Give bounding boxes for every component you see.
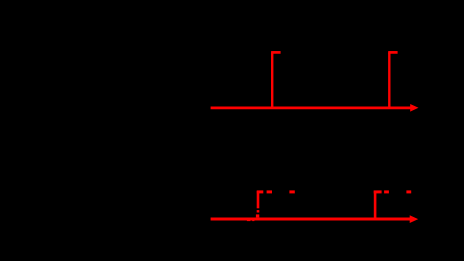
wire: pulse 2 top corner segment: [374, 190, 382, 193]
wire: pulse 1 top dash b: [289, 190, 294, 193]
node arrowhead of bottom axis: [410, 215, 419, 223]
wire: pulse 2 top dash a: [384, 190, 389, 193]
wire: impulse 2 vertical (top plot): [388, 52, 390, 107]
node t-axis (top impulse-train plot): [211, 52, 419, 111]
wire: bottom time axis: [211, 217, 411, 220]
wire: pulse 2 top dash b: [406, 190, 411, 193]
wire: pulse 1 rising edge (bottom plot): [257, 191, 260, 209]
wire: pulse 1 top corner segment: [257, 190, 264, 193]
wire: pulse 1 rising edge lower dash a: [257, 210, 260, 212]
wire: impulse 1 top tick: [271, 51, 281, 54]
wire: pulse 1 rising edge lower dash b: [256, 214, 259, 217]
node t-axis (bottom pulse plot): [211, 191, 419, 223]
wire: small dashes on axis left of pulse 1 foot: [247, 219, 251, 221]
wire: pulse 2 rising edge (bottom plot): [374, 191, 377, 219]
wire: pulse 1 top dash a: [267, 190, 272, 193]
node arrowhead of top axis: [410, 104, 418, 112]
wire: impulse 1 vertical (top plot): [271, 52, 273, 107]
wire: impulse 2 top tick: [388, 51, 397, 54]
wire: top time axis: [211, 107, 413, 110]
